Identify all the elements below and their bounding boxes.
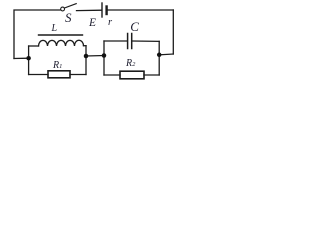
label R1 (53, 61, 62, 71)
wire right block left side (103, 41, 105, 75)
switch S blade (64, 4, 76, 8)
wire left block left side (28, 46, 30, 75)
wire battery to top-right (108, 9, 173, 11)
inductor core line (39, 34, 83, 36)
node right-block right (157, 53, 162, 58)
resistor R1 box (48, 71, 70, 78)
wire top-left segment (14, 10, 60, 59)
wire middle bus (86, 55, 104, 58)
resistor R2 box (120, 71, 144, 79)
label C (130, 20, 139, 33)
label r (108, 18, 112, 29)
label R2 (126, 59, 135, 69)
capacitor C right plate (131, 34, 133, 49)
node right-block left (102, 53, 107, 58)
wire lead to capacitor (104, 40, 127, 42)
wire right rail (172, 10, 174, 54)
battery E long plate (101, 3, 103, 17)
wire right jog (159, 53, 173, 56)
wire left block bottom left (29, 74, 48, 76)
wire right block right side (158, 41, 160, 75)
wire lead to coil (29, 45, 39, 47)
node left-block right (84, 54, 89, 59)
wire left block right side (85, 46, 87, 75)
inductor L coil (39, 40, 84, 46)
wire coil to corner (84, 45, 87, 47)
wire left block bottom right (70, 74, 86, 76)
wire capacitor to corner (132, 40, 159, 42)
node left (26, 56, 31, 61)
wire right block bottom left (104, 74, 120, 76)
label S (65, 11, 72, 24)
battery E short plate (105, 7, 107, 15)
label E (89, 18, 96, 30)
label L (52, 24, 58, 34)
wire right block bottom right (144, 74, 159, 76)
switch S pivot (61, 7, 65, 11)
capacitor C left plate (127, 34, 129, 49)
wire left feed (14, 57, 29, 59)
wire switch to battery (77, 9, 102, 11)
